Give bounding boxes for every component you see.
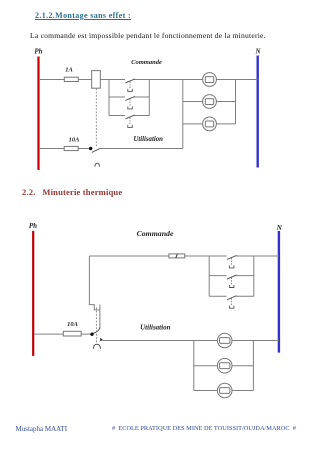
- wire: utilisation line (diagram 2): [103, 340, 194, 342]
- wire: push-button row 3 right: [134, 115, 149, 117]
- wire: push-button row B left: [209, 275, 226, 277]
- wire: main command line from S1 to neutral N: [134, 79, 257, 81]
- wire: push-button row B right: [236, 275, 254, 277]
- timer contact blade (diagram 2): [93, 327, 100, 334]
- node: left bus of push-button group (diagram 2): [208, 256, 210, 296]
- heading 2.2: [22, 187, 122, 197]
- label N (diagram 2): [276, 224, 283, 232]
- lamp L1': [217, 333, 232, 348]
- svg-text:Commande: Commande: [131, 59, 162, 66]
- wire: command line to neutral: [236, 255, 279, 257]
- lamp L2': [217, 358, 232, 373]
- time-delay arc symbol (diagram 2): [93, 344, 100, 349]
- timer contact (utilisation) with junction dot: [89, 147, 100, 153]
- label 10A (diagram 2): [67, 321, 78, 328]
- svg-text:10A: 10A: [69, 136, 80, 143]
- label Commande (diagram 2): [137, 229, 174, 238]
- wire: push-button row 3 left: [109, 115, 125, 117]
- paragraph: [30, 31, 266, 40]
- svg-text:N: N: [276, 224, 283, 232]
- fuse F2 10A: [64, 146, 78, 150]
- push-button S2 (row 2): [125, 96, 134, 109]
- fuse F2' 10A (diagram 2): [63, 331, 81, 336]
- label Commande (diagram 1): [131, 59, 162, 66]
- label Utilisation (diagram 2): [140, 324, 170, 332]
- footer author: [16, 425, 68, 433]
- node: junction left of push-buttons: [108, 80, 110, 116]
- fuse F1 1A: [64, 77, 78, 81]
- phase bus Ph (diagram 2): [32, 231, 34, 356]
- label N (diagram 1): [254, 48, 261, 56]
- push-button S1' (top row): [227, 255, 237, 268]
- wire: push-button row C left: [209, 295, 226, 297]
- lamp L3: [203, 117, 217, 131]
- svg-text:Commande: Commande: [137, 229, 174, 238]
- wire: lamp row 3 (diagram 2): [194, 390, 254, 392]
- thermal bimetal leg: [99, 305, 101, 327]
- wire: power line from Ph to contact (diagram 2): [34, 333, 90, 335]
- wire: lamp return bus (diagram 2): [252, 341, 254, 391]
- push-button S3 (row 3): [125, 115, 134, 128]
- push-button S3' (row C): [227, 296, 237, 309]
- lamp L1: [203, 73, 217, 87]
- mechanical link dashed (diagram 2): [95, 308, 97, 344]
- svg-text:Utilisation: Utilisation: [133, 136, 163, 143]
- wire: right bus of push-button group (diagram 2): [253, 256, 255, 296]
- wire: command line (left part): [89, 255, 226, 257]
- lamp L3': [217, 383, 232, 398]
- neutral bus N (diagram 2): [278, 231, 280, 353]
- label Utilisation (diagram 1): [133, 136, 163, 143]
- phase bus Ph (diagram 1): [37, 57, 39, 171]
- heading 2.1.2: [35, 11, 131, 20]
- wire: push-button row 2 left: [109, 96, 125, 98]
- push-button S1 (row 1): [125, 79, 134, 92]
- wire: push-button row 2 right: [134, 96, 149, 98]
- wire: lamp return bus (vertical): [235, 80, 237, 124]
- svg-text:N: N: [254, 48, 261, 56]
- wire: lamp feed bus (diagram 2): [193, 341, 195, 391]
- wire: lamp row 2: [183, 101, 236, 103]
- svg-text:Ph: Ph: [34, 48, 42, 56]
- mechanical link (dashed) from coil to timer contact: [95, 88, 97, 146]
- svg-text:1A: 1A: [65, 67, 72, 74]
- label Ph (diagram 2): [29, 222, 37, 230]
- label Ph (diagram 1): [34, 48, 42, 56]
- push-button S2' (row B): [227, 275, 237, 288]
- time-delay arc symbol: [95, 163, 100, 166]
- label 1A: [65, 67, 72, 74]
- wire: power line from Ph to timer contact: [39, 148, 91, 150]
- svg-text:Ph: Ph: [29, 222, 37, 230]
- wire: right bus of push-button group: [148, 80, 150, 116]
- wire: lamp row 1 to neutral (diagram 2): [194, 340, 279, 342]
- lamp L2: [203, 95, 217, 109]
- arrow head at utilisation wire start: [100, 338, 103, 341]
- wire: riser from command line down to thermal mechanism: [89, 256, 100, 310]
- wire: utilisation line to lamp bus: [100, 148, 183, 150]
- wire: push-button row C right: [236, 295, 254, 297]
- label 10A: [69, 136, 80, 143]
- neutral bus N (diagram 1): [257, 56, 259, 168]
- svg-text:10A: 10A: [67, 321, 78, 328]
- wire: lamp row 2 (diagram 2): [194, 365, 254, 367]
- junction dot (diagram 2): [90, 333, 93, 336]
- svg-text:Utilisation: Utilisation: [140, 324, 170, 332]
- wire: lamp row 3: [183, 123, 236, 125]
- coil minuterie M (relay coil): [92, 71, 101, 89]
- wire: main command line from Ph to push-button S1: [39, 79, 125, 81]
- wire: lamp feed bus (vertical): [182, 80, 184, 149]
- footer school: [112, 425, 296, 432]
- heater resistor (thermal element): [169, 254, 185, 258]
